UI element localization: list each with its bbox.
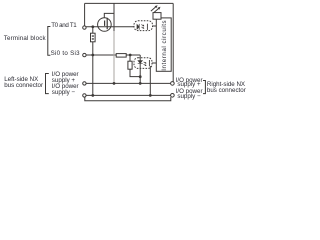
- photocoupler PC2 LED: [138, 61, 143, 64]
- node junction - rail a: [91, 94, 94, 97]
- wire top rail: [85, 2, 174, 4]
- bracket terminal block: [46, 26, 54, 58]
- node junction T0 wire: [91, 25, 94, 28]
- transistor Q1 gate bar: [104, 21, 105, 26]
- label T0 and T1: [51, 22, 76, 29]
- label Terminal block: [4, 35, 46, 42]
- photocoupler PC2 arrows: [144, 62, 146, 66]
- terminal T0/T1: [83, 26, 86, 29]
- internal circuits box U1: [156, 18, 171, 71]
- resistor R1 vertical: [91, 33, 96, 42]
- label supply minus left: [52, 89, 75, 96]
- bracket right bus: [202, 80, 210, 102]
- label bus connector left: [4, 82, 43, 89]
- photocoupler PC2 detector bar: [148, 60, 150, 66]
- label IO power right 2: [176, 88, 203, 95]
- label Si0 to Si3: [51, 50, 80, 57]
- resistor R3 vertical: [128, 61, 132, 69]
- LED indicator box: [153, 13, 161, 20]
- LED emission arrows: [151, 5, 161, 12]
- node junction Si wire left: [91, 54, 94, 57]
- label IO power right 1: [176, 77, 203, 84]
- transistor Q1 drain/source frame: [104, 3, 114, 31]
- wire - rail: [86, 94, 171, 96]
- photocoupler PC2 dashed box: [134, 58, 152, 69]
- node junction Si wire right: [129, 54, 132, 57]
- wire - return loop: [85, 97, 171, 101]
- wire coupler emitter to minus rail: [149, 66, 151, 95]
- wire Si input horizontal: [86, 54, 140, 56]
- label Right-side NX: [207, 81, 245, 88]
- transistor Q1 body: [98, 18, 112, 32]
- label Left-side NX: [4, 76, 38, 83]
- resistor R2 horizontal: [116, 54, 126, 58]
- node junction + rail b: [139, 82, 142, 85]
- bracket left bus: [44, 73, 52, 99]
- label bus connector right: [207, 87, 246, 94]
- terminal Si: [83, 53, 86, 56]
- wire right outer drop to + terminal: [172, 3, 174, 81]
- label supply minus right: [177, 93, 200, 100]
- terminal left +: [83, 82, 86, 85]
- photocoupler PC1 dashed box: [134, 21, 153, 31]
- label IO power left 1: [52, 71, 79, 78]
- node junction + rail a: [113, 82, 116, 85]
- wire T0 riser: [84, 3, 86, 26]
- label supply plus right: [177, 81, 200, 88]
- terminal right -: [171, 94, 175, 98]
- label IO power left 2: [52, 83, 79, 90]
- wire T0 output horizontal: [86, 26, 134, 28]
- photocoupler PC1 arrows: [141, 25, 143, 29]
- terminal left -: [83, 94, 86, 97]
- photocoupler PC1 detector bar: [146, 24, 148, 30]
- label supply plus left: [52, 77, 75, 84]
- wire + rail: [86, 82, 171, 84]
- wire coupler2 to internal box: [152, 62, 157, 64]
- wire source gray segment: [113, 31, 115, 82]
- node junction - rail b: [149, 94, 152, 97]
- node junction coupler elbow: [139, 75, 142, 78]
- wire resistor2 elbow: [130, 55, 140, 77]
- photocoupler PC1 LED: [137, 24, 139, 30]
- transistor Q1 channel bar: [107, 18, 108, 29]
- svg-text:Internal circuits: Internal circuits: [161, 20, 168, 71]
- terminal right +: [171, 82, 175, 86]
- wire vertical T-to-Si-to-minus: [92, 27, 94, 96]
- wire LED leg down: [139, 55, 141, 83]
- wire coupler1 to internal box: [153, 25, 158, 27]
